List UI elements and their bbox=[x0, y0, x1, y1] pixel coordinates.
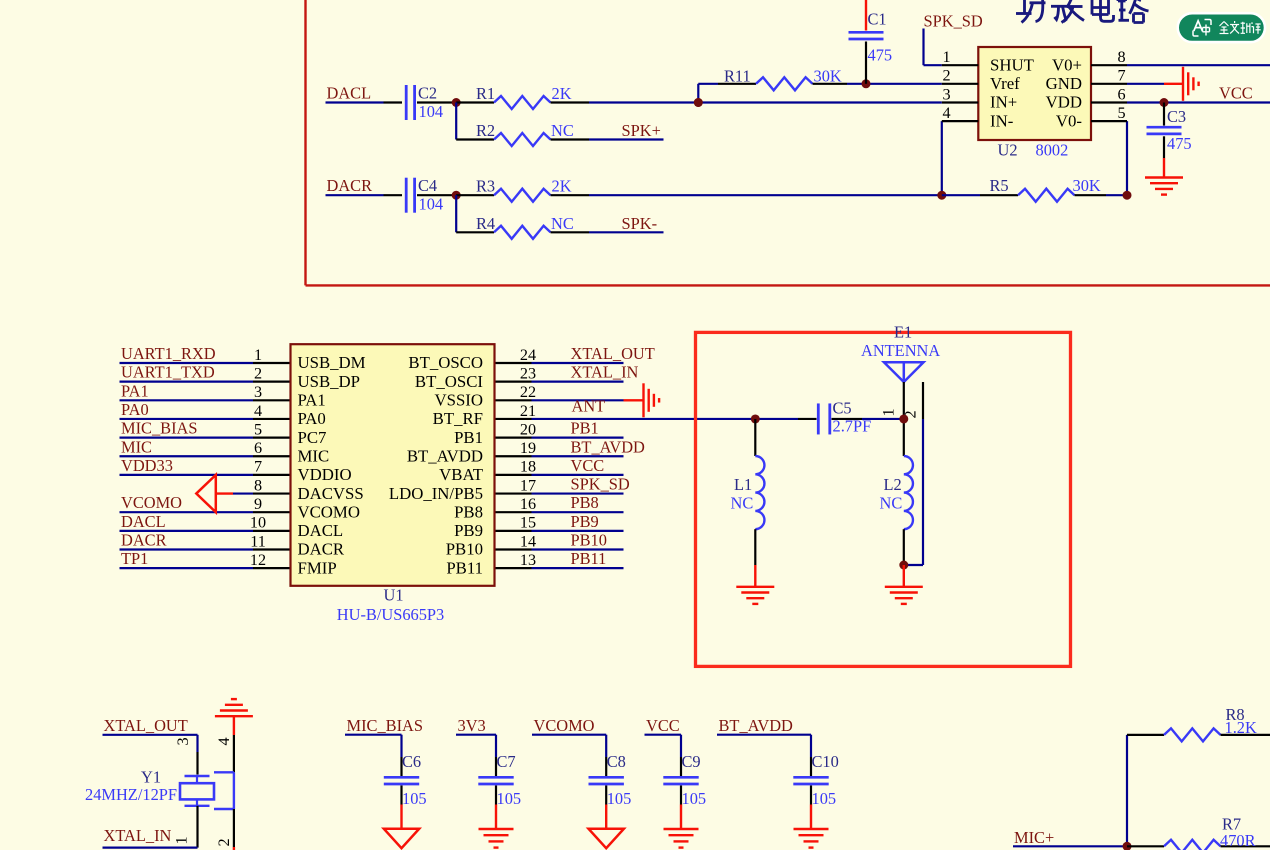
svg-text:1: 1 bbox=[254, 346, 262, 364]
svg-text:105: 105 bbox=[812, 789, 837, 808]
svg-text:14: 14 bbox=[520, 532, 536, 550]
svg-text:23: 23 bbox=[520, 364, 536, 382]
svg-text:104: 104 bbox=[419, 102, 444, 121]
svg-text:NC: NC bbox=[731, 494, 754, 513]
svg-text:7: 7 bbox=[254, 458, 262, 476]
svg-text:30K: 30K bbox=[814, 67, 842, 86]
svg-text:C2: C2 bbox=[418, 84, 437, 103]
svg-text:SPK_SD: SPK_SD bbox=[571, 475, 630, 494]
svg-text:C4: C4 bbox=[418, 176, 437, 195]
svg-text:2.7PF: 2.7PF bbox=[833, 417, 872, 436]
svg-text:PB8: PB8 bbox=[571, 493, 599, 512]
svg-text:UART1_RXD: UART1_RXD bbox=[121, 344, 216, 363]
svg-text:BT_AVDD: BT_AVDD bbox=[571, 437, 646, 456]
svg-text:USB_DM: USB_DM bbox=[298, 353, 366, 372]
svg-text:13: 13 bbox=[520, 551, 536, 569]
svg-text:1: 1 bbox=[173, 836, 191, 844]
svg-text:20: 20 bbox=[520, 420, 536, 438]
svg-text:30K: 30K bbox=[1073, 176, 1101, 195]
svg-text:2K: 2K bbox=[552, 177, 572, 196]
svg-text:R1: R1 bbox=[476, 84, 495, 103]
svg-text:DACL: DACL bbox=[121, 512, 166, 531]
svg-text:FMIP: FMIP bbox=[298, 558, 337, 577]
svg-text:104: 104 bbox=[419, 195, 444, 214]
svg-text:DACVSS: DACVSS bbox=[298, 484, 364, 503]
svg-text:VCOMO: VCOMO bbox=[121, 493, 182, 512]
svg-text:105: 105 bbox=[497, 789, 522, 808]
svg-text:PB1: PB1 bbox=[571, 419, 599, 438]
svg-text:V0+: V0+ bbox=[1052, 55, 1082, 74]
svg-text:5: 5 bbox=[254, 420, 262, 438]
svg-text:PB8: PB8 bbox=[454, 502, 483, 521]
svg-text:U2: U2 bbox=[998, 141, 1018, 160]
svg-text:SPK+: SPK+ bbox=[622, 121, 661, 140]
svg-text:BT_AVDD: BT_AVDD bbox=[407, 446, 483, 465]
svg-text:12: 12 bbox=[250, 551, 266, 569]
svg-text:XTAL_OUT: XTAL_OUT bbox=[104, 716, 188, 735]
svg-text:LDO_IN/PB5: LDO_IN/PB5 bbox=[389, 484, 483, 503]
svg-text:PB1: PB1 bbox=[454, 428, 483, 447]
svg-text:SPK-: SPK- bbox=[622, 214, 658, 233]
svg-text:2: 2 bbox=[254, 364, 262, 382]
svg-text:IN-: IN- bbox=[990, 111, 1013, 130]
svg-text:L2: L2 bbox=[884, 475, 902, 494]
svg-text:XTAL_OUT: XTAL_OUT bbox=[571, 344, 655, 363]
svg-text:PA1: PA1 bbox=[298, 391, 326, 410]
svg-text:R5: R5 bbox=[990, 176, 1009, 195]
svg-text:VCOMO: VCOMO bbox=[534, 716, 595, 735]
svg-text:USB_DP: USB_DP bbox=[298, 372, 361, 391]
svg-text:Vref: Vref bbox=[990, 74, 1020, 93]
svg-text:5: 5 bbox=[1117, 104, 1125, 122]
svg-text:VDDIO: VDDIO bbox=[298, 465, 352, 484]
svg-text:L1: L1 bbox=[734, 475, 752, 494]
svg-text:105: 105 bbox=[607, 789, 632, 808]
svg-text:19: 19 bbox=[520, 439, 536, 457]
svg-text:C7: C7 bbox=[497, 752, 516, 771]
svg-text:C6: C6 bbox=[402, 752, 421, 771]
svg-text:8: 8 bbox=[1117, 48, 1125, 66]
svg-text:475: 475 bbox=[1167, 134, 1192, 153]
svg-text:DACL: DACL bbox=[327, 84, 372, 103]
svg-text:7: 7 bbox=[1117, 67, 1125, 85]
svg-text:XTAL_IN: XTAL_IN bbox=[571, 363, 639, 382]
svg-text:MIC: MIC bbox=[298, 446, 330, 465]
svg-text:8002: 8002 bbox=[1036, 141, 1069, 160]
svg-text:475: 475 bbox=[868, 46, 893, 65]
svg-text:R3: R3 bbox=[476, 177, 495, 196]
svg-text:1: 1 bbox=[942, 48, 950, 66]
svg-text:8: 8 bbox=[254, 476, 262, 494]
svg-text:NC: NC bbox=[880, 494, 903, 513]
svg-text:BT_OSCO: BT_OSCO bbox=[408, 353, 483, 372]
svg-text:11: 11 bbox=[250, 532, 266, 550]
svg-text:VDD33: VDD33 bbox=[121, 456, 173, 475]
svg-text:PC7: PC7 bbox=[298, 428, 327, 447]
svg-text:HU-B/US665P3: HU-B/US665P3 bbox=[337, 605, 444, 624]
svg-text:10: 10 bbox=[250, 514, 266, 532]
svg-text:24: 24 bbox=[520, 346, 536, 364]
svg-text:E1: E1 bbox=[894, 323, 912, 342]
svg-text:C8: C8 bbox=[607, 752, 626, 771]
svg-text:C3: C3 bbox=[1167, 107, 1186, 126]
svg-text:4: 4 bbox=[215, 737, 233, 745]
svg-text:18: 18 bbox=[520, 458, 536, 476]
svg-text:3V3: 3V3 bbox=[458, 716, 486, 735]
svg-text:VCOMO: VCOMO bbox=[298, 502, 360, 521]
svg-text:DACR: DACR bbox=[327, 176, 373, 195]
svg-text:BT_RF: BT_RF bbox=[433, 409, 483, 428]
svg-text:DACR: DACR bbox=[121, 531, 167, 550]
svg-text:GND: GND bbox=[1046, 74, 1082, 93]
svg-text:BT_AVDD: BT_AVDD bbox=[719, 716, 794, 735]
svg-text:VCC: VCC bbox=[571, 456, 605, 475]
svg-text:16: 16 bbox=[520, 495, 536, 513]
svg-text:470R: 470R bbox=[1220, 831, 1256, 850]
svg-text:PA0: PA0 bbox=[298, 409, 326, 428]
svg-text:UART1_TXD: UART1_TXD bbox=[121, 363, 215, 382]
svg-text:PB9: PB9 bbox=[454, 521, 483, 540]
svg-text:Y1: Y1 bbox=[141, 768, 161, 787]
svg-text:6: 6 bbox=[1117, 85, 1125, 103]
svg-text:15: 15 bbox=[520, 514, 536, 532]
svg-text:21: 21 bbox=[520, 402, 536, 420]
svg-text:V0-: V0- bbox=[1056, 111, 1082, 130]
svg-text:VCC: VCC bbox=[1219, 83, 1253, 102]
svg-text:VCC: VCC bbox=[646, 716, 680, 735]
svg-text:ANTENNA: ANTENNA bbox=[861, 341, 940, 360]
svg-text:1.2K: 1.2K bbox=[1225, 718, 1257, 737]
svg-text:PB11: PB11 bbox=[571, 549, 607, 568]
svg-text:3: 3 bbox=[174, 737, 192, 745]
svg-text:3: 3 bbox=[254, 383, 262, 401]
svg-text:3: 3 bbox=[942, 85, 950, 103]
svg-text:MIC: MIC bbox=[121, 437, 152, 456]
svg-text:6: 6 bbox=[254, 439, 262, 457]
svg-text:VDD: VDD bbox=[1046, 93, 1082, 112]
svg-text:9: 9 bbox=[254, 495, 262, 513]
svg-text:4: 4 bbox=[254, 402, 262, 420]
svg-text:SPK_SD: SPK_SD bbox=[924, 12, 983, 31]
svg-text:2: 2 bbox=[942, 67, 950, 85]
svg-text:1: 1 bbox=[880, 408, 898, 416]
svg-text:R11: R11 bbox=[724, 67, 751, 86]
svg-text:R2: R2 bbox=[476, 121, 495, 140]
svg-text:SHUT: SHUT bbox=[990, 55, 1034, 74]
svg-text:PB9: PB9 bbox=[571, 512, 599, 531]
svg-text:2: 2 bbox=[215, 838, 233, 846]
svg-text:105: 105 bbox=[402, 789, 427, 808]
svg-text:PB11: PB11 bbox=[446, 558, 483, 577]
svg-text:TP1: TP1 bbox=[121, 549, 148, 568]
svg-text:4: 4 bbox=[942, 104, 950, 122]
svg-text:R4: R4 bbox=[476, 214, 495, 233]
svg-text:ANT: ANT bbox=[572, 396, 606, 415]
svg-text:PB10: PB10 bbox=[446, 540, 483, 559]
svg-text:MIC_BIAS: MIC_BIAS bbox=[347, 716, 424, 735]
svg-text:NC: NC bbox=[551, 214, 574, 233]
svg-text:IN+: IN+ bbox=[990, 93, 1017, 112]
svg-text:PB10: PB10 bbox=[571, 531, 607, 550]
svg-text:VBAT: VBAT bbox=[439, 465, 483, 484]
svg-text:2K: 2K bbox=[552, 84, 572, 103]
svg-text:PA1: PA1 bbox=[121, 381, 149, 400]
svg-text:MIC+: MIC+ bbox=[1014, 828, 1054, 847]
svg-text:C1: C1 bbox=[868, 10, 887, 29]
svg-text:XTAL_IN: XTAL_IN bbox=[104, 826, 172, 845]
svg-text:VSSIO: VSSIO bbox=[435, 391, 484, 410]
svg-text:105: 105 bbox=[682, 789, 707, 808]
svg-text:PA0: PA0 bbox=[121, 400, 149, 419]
svg-text:C5: C5 bbox=[833, 399, 852, 418]
svg-text:BT_OSCI: BT_OSCI bbox=[415, 372, 483, 391]
svg-text:24MHZ/12PF: 24MHZ/12PF bbox=[85, 785, 177, 804]
svg-text:17: 17 bbox=[520, 476, 536, 494]
svg-text:NC: NC bbox=[551, 121, 574, 140]
svg-text:C10: C10 bbox=[812, 752, 839, 771]
svg-text:U1: U1 bbox=[384, 586, 404, 605]
svg-text:22: 22 bbox=[520, 383, 536, 401]
svg-text:MIC_BIAS: MIC_BIAS bbox=[121, 419, 198, 438]
svg-text:DACR: DACR bbox=[298, 540, 345, 559]
svg-text:DACL: DACL bbox=[298, 521, 344, 540]
svg-text:C9: C9 bbox=[682, 752, 701, 771]
